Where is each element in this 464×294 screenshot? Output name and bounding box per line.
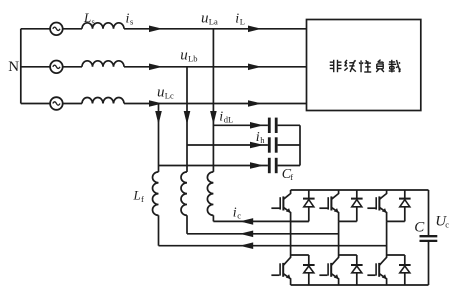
svg-text:i: i xyxy=(233,206,237,221)
svg-text:L: L xyxy=(133,188,141,203)
svg-text:i: i xyxy=(235,11,239,26)
svg-text:s: s xyxy=(92,17,95,27)
svg-text:i: i xyxy=(219,109,223,124)
svg-text:c: c xyxy=(445,220,449,230)
svg-text:h: h xyxy=(260,135,265,145)
svg-text:Lb: Lb xyxy=(188,54,197,64)
svg-text:La: La xyxy=(209,16,218,26)
svg-text:u: u xyxy=(201,10,209,26)
svg-text:Lc: Lc xyxy=(165,91,174,101)
svg-text:s: s xyxy=(130,17,133,27)
svg-text:N: N xyxy=(8,59,19,75)
svg-text:f: f xyxy=(141,194,144,204)
svg-text:L: L xyxy=(83,10,91,25)
svg-text:dL: dL xyxy=(224,114,233,124)
svg-text:i: i xyxy=(256,130,260,145)
svg-text:u: u xyxy=(180,48,188,64)
svg-text:C: C xyxy=(414,219,425,235)
svg-text:c: c xyxy=(237,211,241,221)
svg-text:i: i xyxy=(126,12,130,27)
svg-text:L: L xyxy=(240,16,245,26)
svg-text:f: f xyxy=(290,172,293,182)
svg-text:u: u xyxy=(157,85,165,101)
